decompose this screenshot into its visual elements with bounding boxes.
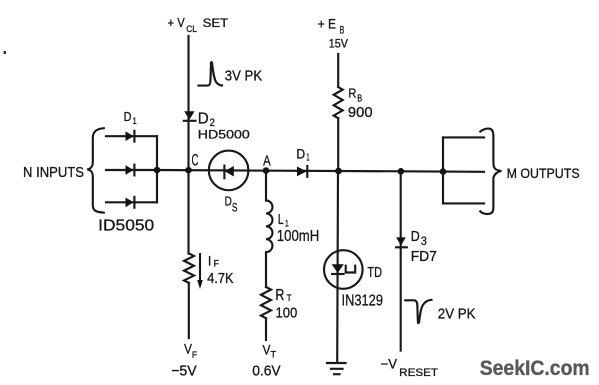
resistor RB — [334, 87, 343, 118]
svg-text:900: 900 — [348, 104, 373, 121]
wire output top line — [443, 136, 484, 138]
node input join — [154, 167, 161, 174]
wire outputs vertical — [442, 137, 444, 203]
svg-text:D: D — [124, 109, 132, 124]
label +VCL SET — [168, 16, 229, 34]
diode D3 — [396, 237, 407, 247]
svg-text:S: S — [232, 200, 238, 214]
label DS — [225, 194, 238, 214]
svg-text:1: 1 — [133, 116, 137, 127]
diode D1 input top — [126, 131, 135, 142]
label +EB — [318, 17, 345, 37]
resistor IF 4.7K — [184, 254, 194, 283]
wire EB to RB — [337, 54, 339, 87]
svg-text:4.7K: 4.7K — [207, 271, 234, 287]
svg-text:RESET: RESET — [399, 367, 438, 379]
inductor L1 — [266, 171, 272, 287]
svg-text:TD: TD — [367, 265, 382, 281]
wire VCL vertical — [187, 36, 189, 254]
svg-text:D: D — [198, 110, 209, 127]
wire VCL lower to VF — [188, 283, 190, 338]
svg-text:+ E: + E — [318, 17, 336, 32]
svg-text:3: 3 — [421, 234, 427, 248]
wire RB node down to ground — [336, 171, 339, 363]
waveform 2V PK pulse — [405, 300, 431, 323]
svg-text:M OUTPUTS: M OUTPUTS — [507, 166, 580, 181]
svg-text:ID5050: ID5050 — [98, 218, 154, 235]
svg-text:IN3129: IN3129 — [342, 292, 384, 309]
svg-text:+ V: + V — [168, 16, 186, 30]
tunnel diode TD circle — [324, 250, 363, 289]
label RT — [275, 287, 292, 304]
wire output bottom line — [443, 202, 484, 204]
svg-text:HD5000: HD5000 — [198, 128, 250, 142]
svg-text:T: T — [287, 293, 293, 303]
svg-text:V: V — [263, 343, 271, 358]
svg-text:B: B — [340, 25, 345, 37]
svg-text:−V: −V — [381, 356, 398, 371]
diode D2 — [184, 111, 196, 121]
brace left input — [87, 128, 104, 212]
label D2 — [198, 110, 215, 129]
svg-text:L: L — [278, 211, 284, 228]
diode DS in circle — [209, 151, 249, 191]
svg-text:V: V — [184, 342, 192, 357]
svg-text:−5V: −5V — [171, 363, 197, 380]
wire RT to VT — [265, 318, 267, 340]
label RB — [348, 85, 362, 104]
svg-text:A: A — [263, 153, 271, 169]
label -VRESET — [381, 356, 439, 379]
svg-text:1: 1 — [306, 153, 310, 164]
label D1 input — [124, 109, 137, 127]
svg-text:D: D — [296, 147, 305, 162]
label VT — [263, 343, 277, 361]
wire RB to main — [337, 118, 339, 171]
wire input top line — [106, 135, 157, 137]
wire input bottom line — [106, 201, 157, 203]
wire input join vertical — [156, 136, 158, 202]
svg-text:FD7: FD7 — [411, 249, 437, 265]
node RB main — [335, 168, 342, 175]
node C — [185, 167, 192, 174]
svg-text:SeekIC.com: SeekIC.com — [480, 356, 590, 380]
svg-text:D: D — [411, 229, 420, 245]
label D3 — [411, 229, 427, 248]
svg-text:SET: SET — [203, 16, 229, 30]
svg-text:100: 100 — [276, 304, 298, 321]
label IF — [208, 254, 220, 269]
svg-text:C: C — [192, 151, 199, 169]
svg-text:CL: CL — [186, 24, 197, 34]
resistor RT — [261, 287, 271, 318]
svg-text:B: B — [357, 94, 362, 105]
wire main horizontal — [157, 170, 484, 172]
svg-text:15V: 15V — [329, 36, 348, 50]
label D1 main — [296, 147, 310, 164]
current arrow IF — [197, 254, 203, 289]
brace right outputs — [480, 129, 501, 214]
speck left margin — [4, 51, 7, 54]
svg-text:R: R — [348, 85, 356, 100]
waveform 3V PK pulse — [199, 62, 223, 86]
svg-text:N INPUTS: N INPUTS — [23, 165, 84, 181]
ground — [327, 363, 346, 374]
label VF — [184, 342, 197, 361]
svg-text:I: I — [208, 254, 211, 269]
diode D1 input middle — [126, 165, 135, 176]
svg-text:3V PK: 3V PK — [225, 68, 263, 84]
diode D1 main — [297, 166, 307, 177]
svg-text:R: R — [275, 287, 284, 304]
wire D3 column — [400, 171, 402, 350]
diode D1 input bottom — [126, 197, 135, 208]
node D3 main — [398, 168, 405, 175]
svg-text:T: T — [271, 349, 277, 360]
node A — [263, 167, 270, 174]
svg-text:D: D — [225, 194, 232, 208]
svg-text:F: F — [192, 350, 197, 361]
svg-text:2V PK: 2V PK — [438, 307, 476, 323]
label L1 — [278, 211, 289, 229]
svg-text:F: F — [214, 258, 220, 268]
node M outputs — [440, 168, 447, 175]
wire input middle line — [106, 169, 157, 171]
svg-text:100mH: 100mH — [277, 228, 320, 245]
svg-text:0.6V: 0.6V — [252, 363, 280, 380]
